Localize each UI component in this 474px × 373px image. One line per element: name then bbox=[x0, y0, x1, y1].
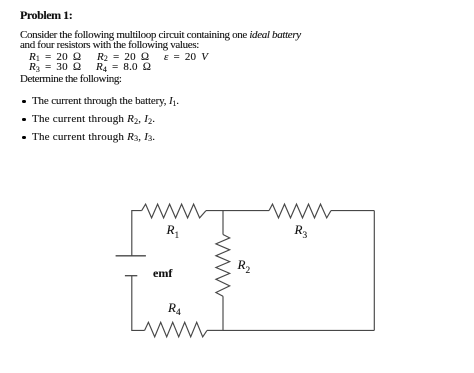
wire right side bbox=[373, 211, 375, 331]
wire top-left corner to R1 bbox=[132, 211, 142, 256]
wire R1 to node A bbox=[206, 210, 223, 212]
paragraph line 2 bbox=[20, 40, 199, 51]
battery emf: long (positive) plate bbox=[116, 255, 146, 257]
label emf bbox=[153, 267, 172, 279]
bullet item 2 bbox=[22, 118, 25, 121]
value label emf = 20 V bbox=[164, 52, 208, 63]
value label R3 = 30 ohm bbox=[29, 62, 81, 73]
value label R1 = 20 ohm bbox=[29, 52, 81, 63]
value label R2 = 20 ohm bbox=[97, 52, 149, 63]
wire node B to R4 bbox=[207, 329, 223, 331]
resistor R3 bbox=[269, 204, 331, 218]
bullet item 1 bbox=[22, 100, 25, 103]
resistor R2 bbox=[216, 235, 230, 297]
wire R2 to node B bbox=[222, 296, 224, 330]
label R4 bbox=[168, 301, 181, 314]
resistor R1 bbox=[142, 204, 206, 218]
label R1 bbox=[167, 223, 180, 236]
bullet item 3 bbox=[22, 136, 25, 139]
resistor R4 bbox=[145, 322, 207, 337]
wire node A to R3 bbox=[223, 210, 269, 212]
wire node A down to R2 bbox=[222, 211, 224, 235]
label R3 bbox=[295, 223, 308, 236]
wire R4 to bottom-left corner bbox=[132, 276, 145, 331]
wire bottom-right to node B bbox=[223, 329, 374, 331]
wire R3 to top-right corner bbox=[331, 210, 374, 212]
title "Problem 1:" bbox=[20, 9, 72, 21]
paragraph line 1 bbox=[20, 30, 301, 41]
paragraph line "Determine the following:" bbox=[20, 74, 122, 85]
battery emf: short (negative) plate bbox=[125, 275, 137, 277]
label R2 bbox=[238, 258, 251, 271]
value label R4 = 8.0 ohm bbox=[96, 62, 151, 73]
